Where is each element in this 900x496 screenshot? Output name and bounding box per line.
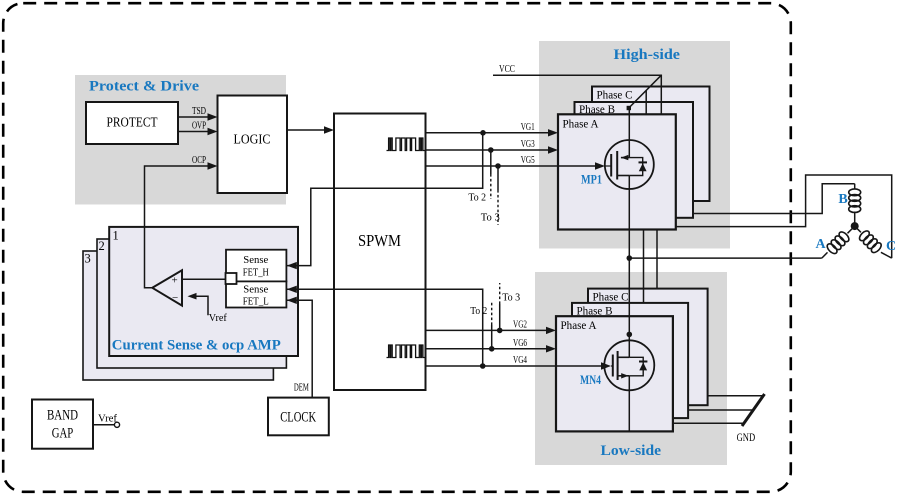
PROTECT box [86,102,178,144]
transistor MP1 circle [605,140,654,189]
wire VCC [493,74,661,76]
MP1 body diode branch [629,158,642,176]
pwm waveform bottom [387,345,426,358]
MP1 source bar with arrow [621,157,629,159]
svg-text:1: 1 [113,229,119,243]
wire phase B column [643,230,645,303]
Protect & Drive region background [75,75,286,205]
svg-text:VG4: VG4 [513,355,527,366]
wire LOGIC to SPWM [287,129,326,131]
wire VG1 [426,132,551,134]
svg-text:Vref: Vref [209,313,227,324]
svg-text:−: − [172,292,178,304]
CLOCK box [268,398,329,436]
wire phase A to GND [673,422,744,424]
svg-text:To 2: To 2 [468,193,486,204]
wire op-amp plus input [182,278,226,280]
node VG6 junction [489,346,495,352]
wire phase B box to coil B [693,184,855,214]
wire phase B to GND [688,409,753,411]
wire phase A drain column [628,176,630,358]
wire phase A box to coil C [676,175,892,258]
svg-text:BAND: BAND [47,408,78,424]
svg-text:Low-side: Low-side [601,443,662,459]
phase A box high-side [558,114,676,229]
wire VG5 [426,165,599,167]
wire To 3 dashed low-side [499,304,501,330]
svg-text:VG3: VG3 [521,139,535,150]
MN4 body diode cathode bar [639,361,647,363]
MN4 source bar with arrow [618,375,630,377]
svg-text:Phase C: Phase C [593,292,629,304]
svg-text:VG2: VG2 [513,320,527,331]
svg-text:VCC: VCC [499,64,515,75]
node VG2 junction [497,328,503,334]
High-side region background [539,41,730,249]
phase B box low-side [572,303,688,418]
svg-text:VG5: VG5 [521,155,535,166]
svg-text:FET_L: FET_L [243,296,269,307]
wire VCC diagonal bus [629,75,662,108]
wire phase A output to coil A [629,257,822,259]
MN4 channel bar [617,351,619,380]
wire VCC drop phase C [660,75,662,115]
wire To 2 dashed high-side [490,150,492,174]
MP1 channel bar [616,151,618,180]
svg-text:To 3: To 3 [481,213,500,224]
phase A box low-side [556,316,673,431]
sense switch square [226,273,237,284]
wire VG6 [426,348,549,350]
current sense amp box 1 [109,227,298,356]
wire VG3 [426,149,551,151]
svg-text:TSD: TSD [192,106,206,117]
MN4 gate bar [612,355,614,377]
svg-text:To 3: To 3 [502,293,520,304]
svg-text:A: A [815,237,826,252]
wire VG4 [426,365,605,367]
svg-text:Protect & Drive: Protect & Drive [89,79,199,95]
current sense amp box 3 [83,251,273,380]
SPWM box [334,114,426,391]
wire VCC drop phase B [645,91,647,115]
svg-text:MP1: MP1 [581,173,602,187]
wire sense FET_L tap to VG4 [287,289,483,366]
svg-text:C: C [886,239,896,254]
wire phase C column [656,230,658,289]
wire OCP from op-amp output [145,166,210,288]
wire DEM from clock to FET_L [287,300,312,397]
wire Vref to op-amp minus [195,296,208,315]
ground symbol [742,394,765,426]
node drain to motor junction [627,255,633,261]
phase B box high-side [575,102,694,218]
pwm waveform top [387,138,426,151]
svg-text:3: 3 [85,252,91,266]
Sense FET_L box [226,281,286,307]
svg-text:GAP: GAP [52,426,74,442]
transistor MN4 circle [604,340,654,390]
current sense amp box 2 [97,239,286,368]
wire To 3 dashed high-side [497,166,499,190]
phase C box high-side [592,87,710,202]
node MN4 drain junction [627,332,633,338]
node motor star point [851,222,859,230]
LOGIC box [218,96,288,194]
Sense FET_H box [226,250,286,282]
svg-text:Current Sense & ocp AMP: Current Sense & ocp AMP [112,337,281,353]
svg-text:To 2: To 2 [470,306,487,317]
node VG5 junction [495,163,501,169]
svg-text:OVP: OVP [192,121,206,132]
node VG4 junction [480,363,486,369]
node VG3 junction [488,147,494,153]
svg-text:VG1: VG1 [521,122,535,133]
svg-text:Phase A: Phase A [561,320,598,332]
op-amp U1 triangle [152,270,182,305]
wire TSD [178,116,210,118]
node VG1 junction [480,130,486,136]
svg-text:CLOCK: CLOCK [280,410,316,426]
svg-text:FET_H: FET_H [243,267,269,278]
svg-text:2: 2 [99,239,105,253]
svg-text:Sense: Sense [243,285,268,296]
svg-text:VG6: VG6 [513,338,527,349]
node square at diagonal end [627,106,631,110]
MP1 body diode cathode bar [639,161,648,163]
svg-text:PROTECT: PROTECT [107,116,158,131]
wire VG2 [426,329,549,331]
MN4 body diode triangle [639,362,647,370]
coil C [855,226,861,232]
wire To 2 dashed low-side [491,325,493,349]
svg-text:+: + [172,275,178,287]
wire Vref output [93,424,114,426]
wire OVP [178,131,210,133]
svg-text:Phase A: Phase A [563,119,600,131]
wire phase C to GND [708,395,764,397]
svg-text:MN4: MN4 [580,373,602,387]
MN4 source down wire [628,376,630,432]
coil A [848,226,855,233]
MP1 body diode triangle [639,163,647,171]
svg-text:DEM: DEM [294,382,309,393]
svg-text:OCP: OCP [192,155,206,166]
svg-text:High-side: High-side [614,47,681,63]
svg-text:Phase C: Phase C [597,90,633,102]
coil B [854,184,856,190]
svg-text:GND: GND [737,430,756,444]
MP1 gate bar [610,154,612,177]
svg-text:SPWM: SPWM [358,231,401,250]
wire sense FET_H tap to VG1 [287,133,483,266]
Low-side region background [535,272,727,465]
phase C box low-side [588,289,708,406]
svg-text:LOGIC: LOGIC [234,133,271,148]
BAND GAP box [32,400,93,449]
Vref output terminal [114,422,119,427]
wire MP1 source feed [628,108,630,158]
svg-text:Sense: Sense [243,255,268,266]
svg-text:Vref: Vref [98,414,118,425]
svg-text:B: B [838,192,847,207]
MP1 drain bar [617,175,629,177]
MN4 drain bar [618,356,629,358]
MN4 body diode branch [629,357,643,376]
